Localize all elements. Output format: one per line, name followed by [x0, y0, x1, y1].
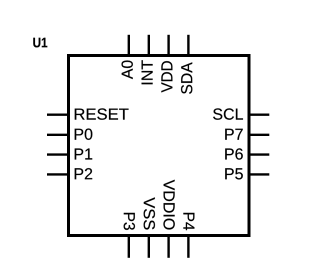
pin A0 (top) wire	[128, 35, 130, 56]
pin SDA label	[181, 62, 192, 94]
pin P7 label	[225, 129, 242, 140]
reference designator U1	[33, 38, 47, 48]
pin SCL label	[213, 108, 243, 119]
pin P5 (right) wire	[249, 173, 269, 175]
pin RESET label	[75, 108, 129, 119]
pin SDA (top) wire	[187, 35, 189, 56]
pin P1 label	[75, 148, 92, 159]
pin VSS label	[144, 197, 155, 229]
pin P5 label	[225, 168, 243, 179]
pin INT (top) wire	[148, 35, 150, 56]
pin RESET (left) wire	[47, 113, 69, 115]
pin P0 (left) wire	[47, 134, 69, 136]
pin P3 (bottom) wire	[128, 236, 130, 258]
pin P2 label	[75, 168, 92, 179]
pin A0 label	[122, 61, 133, 80]
pin P7 (right) wire	[249, 134, 269, 136]
pin VDDIO label	[163, 180, 174, 230]
pin INT label	[142, 60, 153, 84]
pin P2 (left) wire	[47, 173, 69, 175]
pin P4 label	[183, 213, 194, 230]
pin P6 label	[225, 148, 243, 159]
pin P4 (bottom) wire	[187, 236, 189, 258]
pin SCL (right) wire	[249, 113, 269, 115]
pin P3 label	[124, 213, 135, 230]
pin P0 label	[75, 129, 93, 140]
pin VSS (bottom) wire	[148, 236, 150, 258]
pin VDD label	[161, 61, 172, 92]
pin P6 (right) wire	[249, 153, 269, 155]
pin VDD (top) wire	[167, 35, 169, 56]
pin VDDIO (bottom) wire	[167, 236, 169, 258]
IC body U1	[69, 56, 250, 236]
pin P1 (left) wire	[47, 153, 69, 155]
